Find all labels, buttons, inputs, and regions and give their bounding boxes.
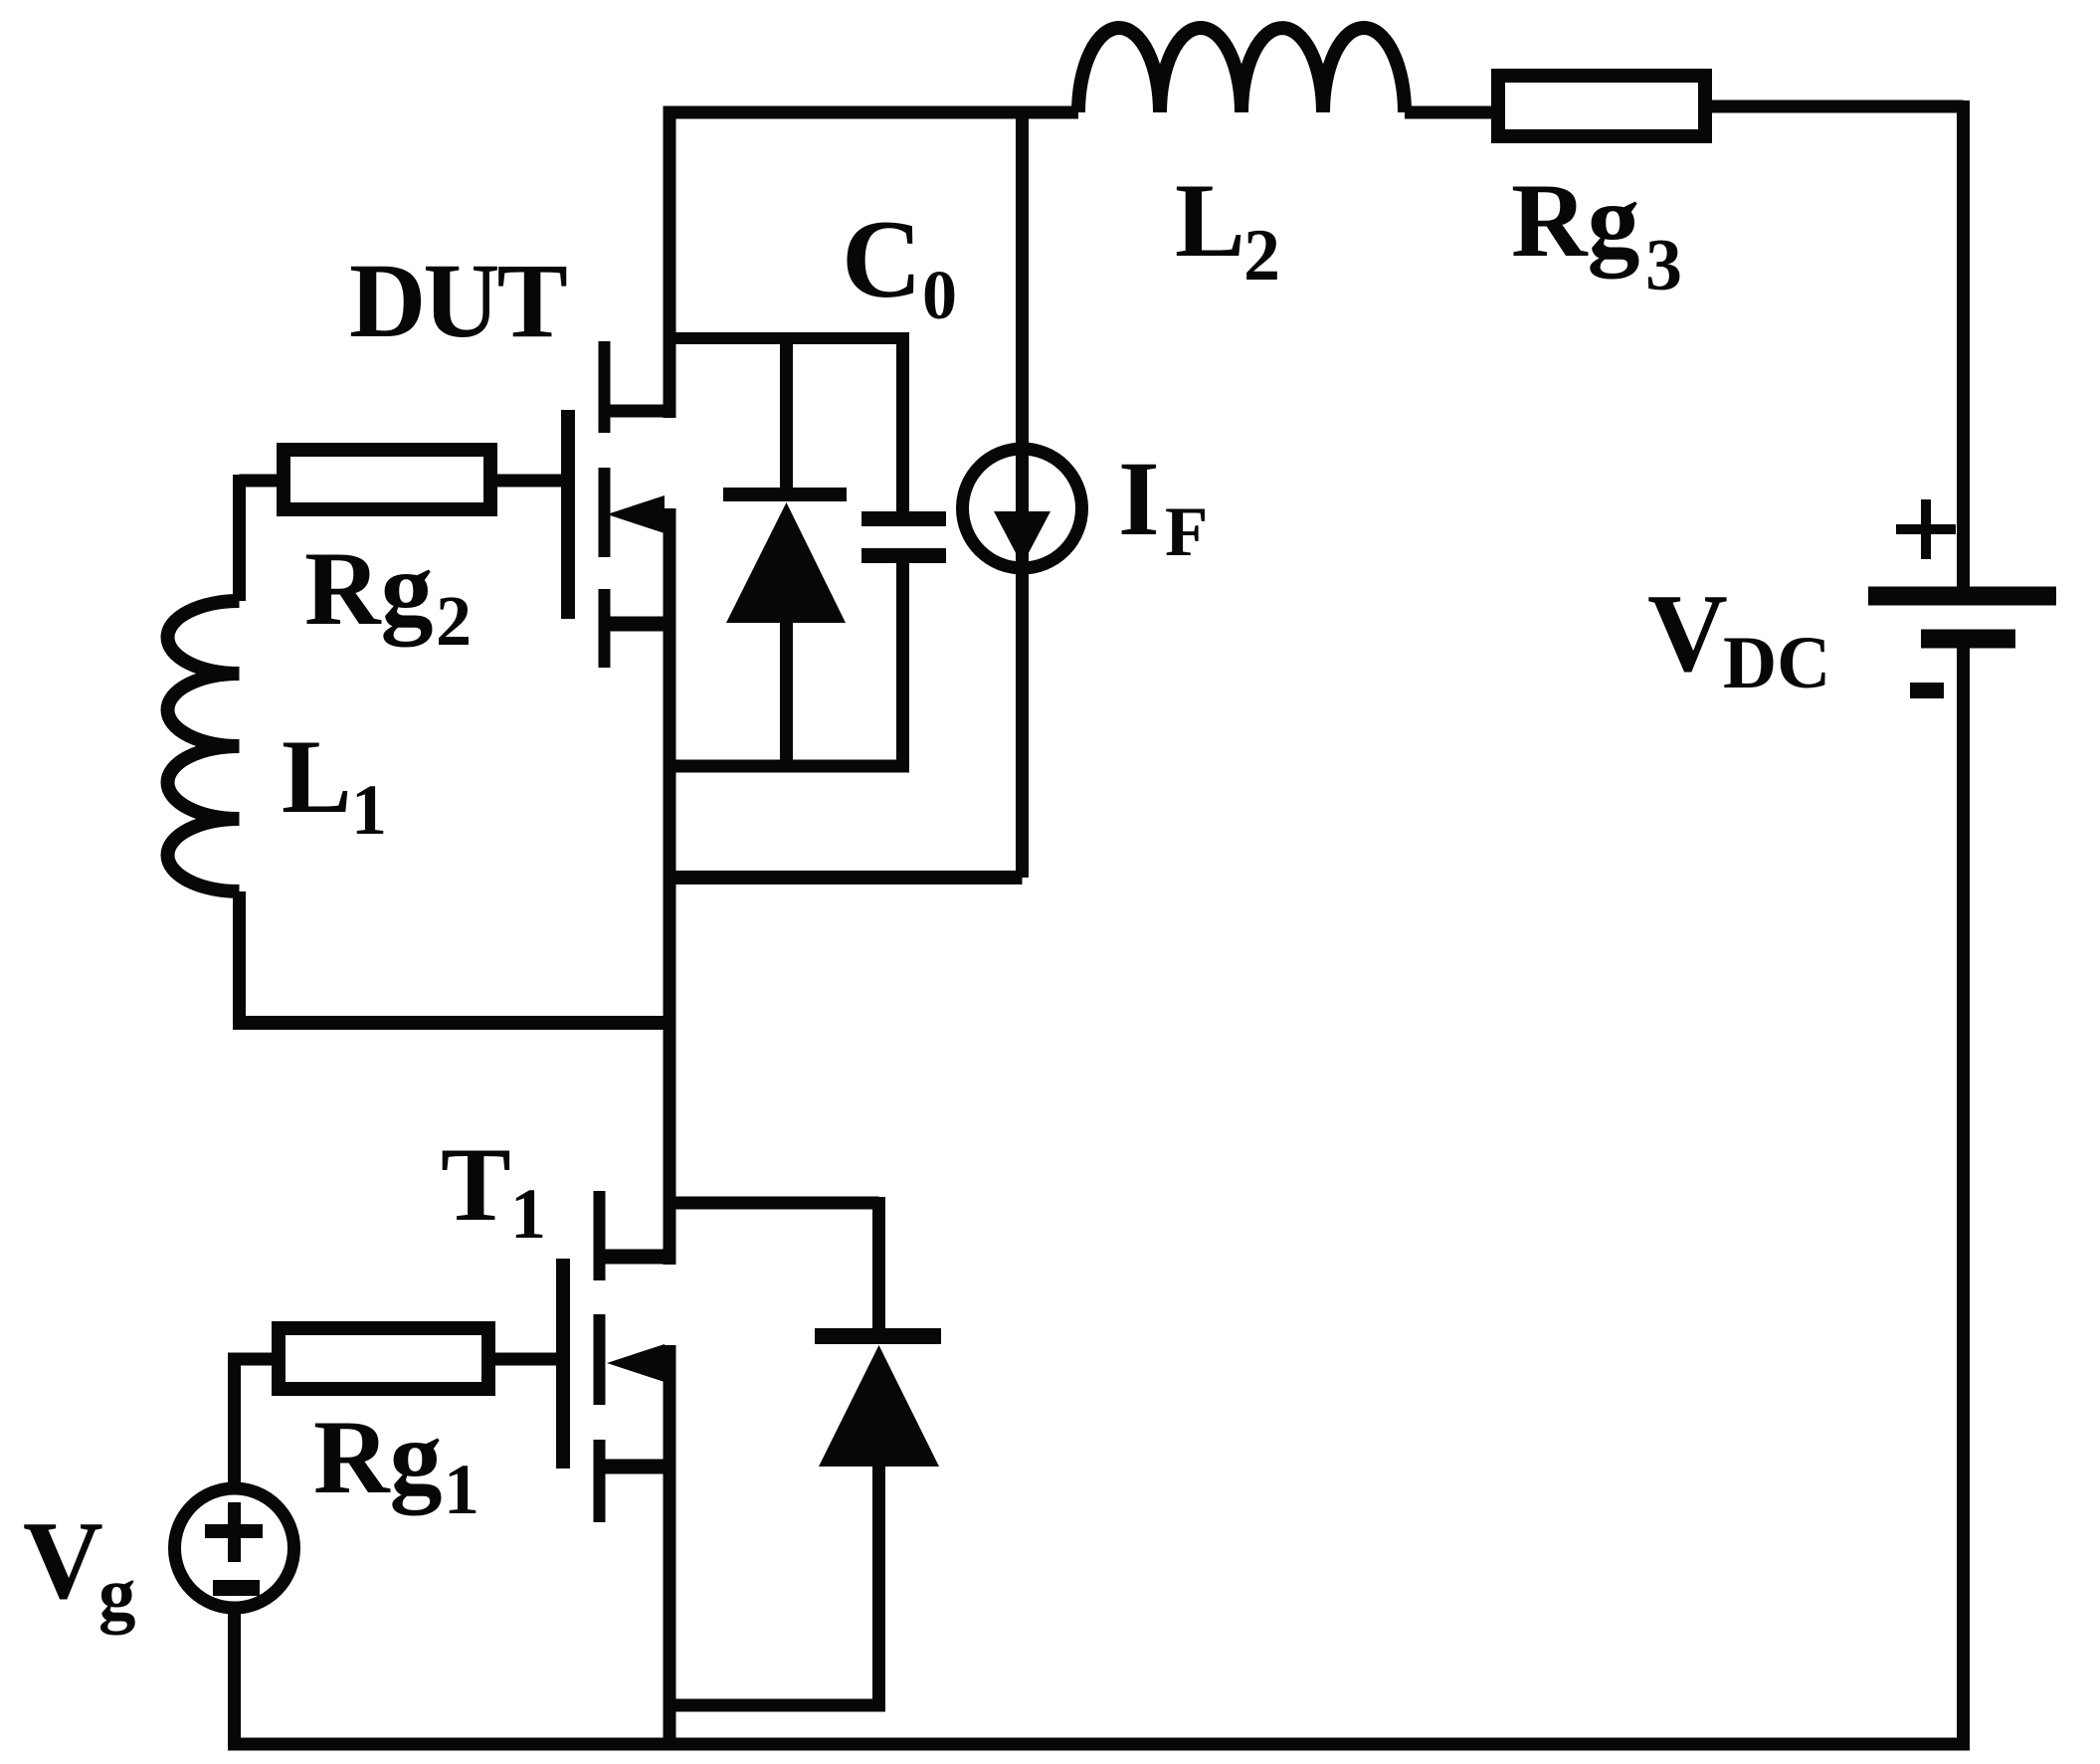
body diode triangle	[726, 502, 846, 623]
inductor L2	[1078, 28, 1405, 112]
wire Rg2 to DUT gate	[490, 475, 563, 488]
wire top-left horizontal	[664, 106, 1079, 119]
body diode anode wire	[780, 619, 793, 766]
svg-text:DUT: DUT	[349, 243, 567, 360]
transistor T1 gate bar	[556, 1259, 570, 1469]
wire DUT drain vertical	[664, 106, 676, 418]
svg-text:L: L	[282, 718, 352, 835]
svg-text:1: 1	[510, 1174, 546, 1254]
wire diode bottom to source	[664, 1699, 886, 1712]
transistor DUT drain tab	[608, 405, 669, 418]
wire IF branch bottom	[664, 871, 1023, 884]
resistor Rg1	[279, 1328, 488, 1389]
transistor T1 drain tab	[603, 1250, 669, 1265]
svg-text:0: 0	[922, 258, 957, 334]
svg-text:1: 1	[444, 1450, 479, 1529]
wire Vg below	[228, 1612, 241, 1744]
resistor Rg2	[284, 450, 490, 509]
svg-text:2: 2	[436, 581, 472, 661]
transistor T1 channel dashes	[594, 1191, 606, 1522]
diode D1 cathode bar	[815, 1328, 941, 1344]
transistor T1 body arrow	[607, 1344, 665, 1382]
svg-text:Rg: Rg	[1511, 162, 1640, 279]
svg-text:L: L	[1175, 162, 1245, 279]
wire Vg above	[228, 1359, 241, 1484]
svg-text:I: I	[1118, 441, 1160, 558]
body diode cathode bar	[723, 488, 847, 501]
body diode cathode wire	[780, 338, 793, 492]
wire L1 loop to main node	[233, 1016, 669, 1030]
svg-text:2: 2	[1243, 215, 1280, 296]
battery VDC positive plate	[1868, 587, 2056, 606]
svg-text:g: g	[98, 1553, 136, 1636]
capacitor C0 plates	[861, 519, 946, 556]
transistor DUT gate bar	[561, 410, 575, 619]
wire Vg to Rg1	[228, 1353, 279, 1366]
transistor DUT body arrow	[607, 495, 665, 533]
svg-text:V: V	[23, 1499, 103, 1623]
svg-text:3: 3	[1645, 225, 1682, 306]
svg-text:DC: DC	[1723, 622, 1830, 704]
wire bottom horizontal	[228, 1738, 1970, 1751]
battery VDC negative plate	[1921, 630, 2015, 649]
snubber box C0 top	[664, 332, 903, 344]
wire L1 to Rg2	[240, 475, 285, 601]
Vg minus sign	[213, 1580, 260, 1596]
resistor Rg3	[1498, 76, 1705, 136]
wire L1 bottom stub	[233, 891, 246, 1023]
battery plus sign	[1896, 499, 1956, 559]
wire T1 source down to bottom	[664, 1345, 676, 1744]
transistor DUT channel dashes	[599, 341, 611, 668]
wire T1 drain corner to diode branch	[664, 1197, 879, 1336]
snubber box C0 right lower	[896, 563, 909, 766]
snubber box C0 right upper	[896, 332, 909, 512]
diode D1 triangle	[819, 1345, 939, 1467]
svg-text:F: F	[1165, 493, 1208, 571]
svg-text:C: C	[842, 198, 922, 321]
wire right vertical upper	[1957, 100, 1970, 588]
snubber box C0 bottom	[664, 760, 910, 773]
transistor T1 source tab	[603, 1460, 669, 1474]
svg-text:Rg: Rg	[313, 1399, 443, 1515]
inductor L1	[168, 601, 240, 891]
wire Rg3 to top-right corner	[1705, 100, 1964, 113]
Vg plus sign	[205, 1524, 263, 1538]
transistor DUT source tab	[603, 617, 669, 632]
current source IF circle	[963, 449, 1082, 568]
battery minus sign	[1910, 683, 1944, 698]
diode D1 anode wire	[872, 1463, 885, 1705]
svg-text:T: T	[441, 1126, 511, 1243]
svg-text:V: V	[1647, 572, 1728, 695]
source Vg circle	[175, 1488, 294, 1608]
wire L2 to Rg3	[1405, 106, 1498, 119]
svg-text:1: 1	[351, 770, 387, 850]
wire Rg1 to T1 gate	[488, 1353, 563, 1366]
wire IF branch vertical	[1016, 106, 1029, 878]
svg-text:Rg: Rg	[304, 530, 434, 647]
wire main vertical node (DUT source to T1 drain)	[664, 508, 676, 1265]
current source IF arrow	[994, 511, 1050, 565]
wire right vertical lower	[1957, 648, 1970, 1744]
